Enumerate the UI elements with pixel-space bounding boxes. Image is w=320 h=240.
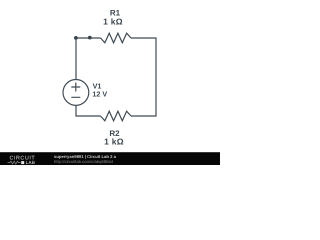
CircuitLab logo (0, 153, 46, 166)
credit text line 2 (54, 160, 113, 164)
V1 minus sign (72, 96, 80, 98)
label R1 (103, 9, 124, 147)
svg-text:12 V: 12 V (92, 90, 107, 99)
node dot B (88, 36, 92, 40)
credit text line 1 (54, 155, 116, 159)
resistor R1 (101, 33, 132, 43)
wire bottom-left segment (76, 105, 101, 116)
watermark bar (0, 152, 220, 165)
voltage source V1 (63, 80, 89, 106)
svg-text:LAB: LAB (26, 160, 36, 165)
resistor R2 (101, 111, 132, 121)
svg-text:1 kΩ: 1 kΩ (103, 17, 123, 27)
V1 plus sign (72, 83, 80, 97)
node dot A (top-left corner) (74, 36, 78, 40)
label V1 (92, 82, 107, 99)
wire top-left segment (76, 38, 101, 80)
svg-text:1 kΩ: 1 kΩ (104, 137, 124, 147)
wire top-right segment (131, 38, 156, 116)
